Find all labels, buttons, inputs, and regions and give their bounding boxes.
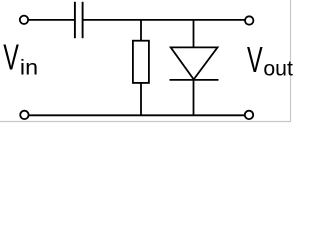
wire: top rail (capacitor to TR terminal): [83, 19, 245, 21]
terminal TR: [245, 16, 253, 24]
frame border bottom: [0, 121, 291, 123]
terminal BL: [20, 111, 28, 119]
terminal BR: [245, 111, 253, 119]
wire: resistor bottom stub: [140, 83, 142, 115]
wire: resistor top stub: [140, 20, 142, 41]
wire: TL terminal to capacitor: [28, 19, 74, 21]
wire: diode bottom stub: [193, 80, 195, 115]
svg-text:in: in: [20, 55, 38, 79]
wire: diode top stub: [193, 20, 195, 48]
svg-text:V: V: [247, 40, 263, 80]
svg-text:V: V: [3, 38, 19, 78]
svg-text:out: out: [263, 58, 293, 81]
capacitor left plate: [74, 2, 76, 38]
capacitor right plate: [82, 2, 84, 38]
frame border right: [290, 0, 292, 122]
diode cathode bar: [170, 79, 219, 81]
diode triangle: [171, 47, 218, 79]
terminal TL: [20, 16, 28, 24]
wire: bottom rail: [29, 114, 245, 116]
resistor body: [133, 41, 149, 83]
